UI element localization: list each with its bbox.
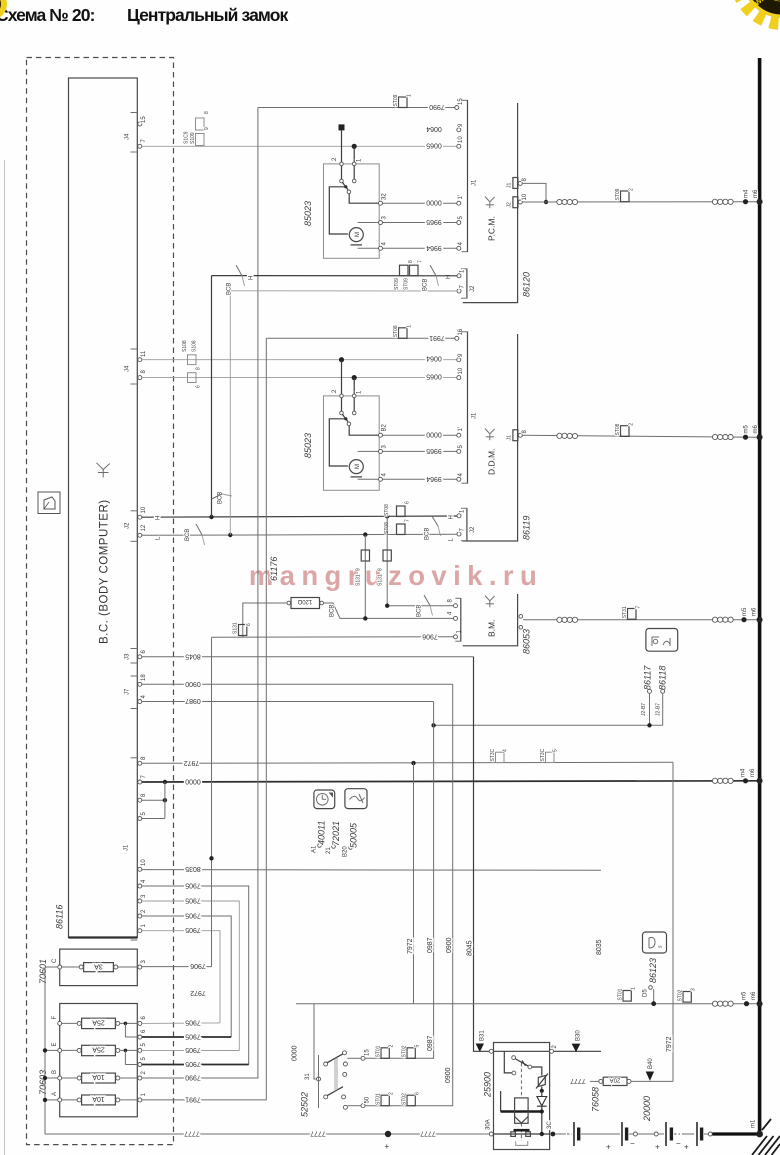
svg-text:52502: 52502 [300, 1092, 310, 1117]
svg-text:3C: 3C [547, 1121, 553, 1129]
svg-text:76058: 76058 [591, 1087, 601, 1112]
svg-text:+: + [655, 1143, 660, 1152]
svg-text:7991: 7991 [185, 1095, 201, 1102]
coil symbol [557, 199, 578, 204]
svg-text:M: M [355, 464, 361, 469]
node m5 [744, 1001, 749, 1006]
svg-text:mangruzovik.ru: mangruzovik.ru [249, 560, 543, 591]
svg-text:0065: 0065 [426, 141, 442, 148]
svg-text:7906: 7906 [422, 632, 438, 639]
svg-text:7: 7 [141, 775, 147, 779]
svg-text:BCB: BCB [218, 492, 224, 504]
wire 0000 ground from J1-7 [142, 781, 758, 782]
svg-text:J1: J1 [472, 412, 478, 419]
pin 15 [361, 1056, 365, 1060]
logo gear top-right [737, 0, 780, 24]
svg-text:J1: J1 [507, 183, 513, 189]
svg-text:4: 4 [458, 242, 464, 246]
switch motor M [329, 419, 363, 477]
node L at riser [228, 533, 232, 537]
svg-text:21: 21 [326, 847, 332, 854]
svg-text:1: 1 [460, 269, 466, 273]
svg-text:7905: 7905 [185, 1046, 201, 1053]
svg-text:ST02: ST02 [678, 989, 684, 1001]
wire 0900 [142, 683, 453, 685]
battery terminal square [339, 124, 345, 130]
relay contact [504, 1051, 542, 1075]
module B.M. symbol K [485, 596, 495, 608]
svg-text:0064: 0064 [426, 125, 442, 132]
connector bracket J1 D.D.M. [462, 332, 478, 484]
wire 7972 [142, 762, 673, 763]
svg-text:B31: B31 [480, 1030, 486, 1041]
relay pin 30A [489, 1132, 493, 1136]
svg-text:3: 3 [382, 216, 388, 220]
svg-text:0000: 0000 [185, 778, 201, 785]
loom mark BCB on H riser [212, 492, 233, 504]
svg-text:5: 5 [553, 749, 559, 752]
svg-text:86123: 86123 [648, 958, 658, 983]
svg-text:25A: 25A [92, 1046, 105, 1053]
relay bottom wire [494, 1133, 550, 1135]
fuse 20A 76058 [570, 1076, 673, 1085]
svg-text:ST01: ST01 [618, 988, 624, 1000]
svg-text:1': 1' [458, 427, 464, 431]
svg-text:J1: J1 [472, 179, 478, 186]
wire 0000 to pin 1 [383, 434, 459, 436]
wire 7991 riser to D.D.M. [142, 338, 266, 1100]
connector ST3C 4 on wire 7972 [490, 748, 509, 762]
svg-text:ST09: ST09 [404, 278, 410, 290]
svg-text:J2: J2 [507, 202, 513, 208]
wire L CAN to modules [142, 534, 458, 535]
svg-text:J7: J7 [125, 688, 131, 695]
connector ST01 2 on wire 0987 [376, 1045, 395, 1059]
relay bottom wire squares [511, 1132, 516, 1137]
connector ST09 1 on wire 7990 [393, 94, 413, 108]
svg-text:9965: 9965 [426, 218, 442, 225]
ground jumper pins 8 5 [142, 780, 167, 819]
wire 9965 pin 3 to 5 [358, 222, 381, 224]
svg-text:10: 10 [458, 367, 464, 374]
svg-text:120Ω: 120Ω [297, 598, 312, 604]
svg-text:6: 6 [196, 385, 202, 388]
svg-text:2: 2 [389, 1045, 395, 1048]
svg-text:7777: 7777 [184, 1130, 200, 1137]
coil symbol [712, 434, 733, 439]
pin 10 D.D.M. [457, 376, 461, 380]
fuse 25A (E) [61, 1045, 137, 1064]
svg-text:8035: 8035 [596, 939, 603, 955]
svg-text:30A: 30A [486, 1119, 492, 1130]
coil symbol [712, 199, 733, 204]
svg-text:1: 1 [357, 390, 363, 394]
svg-text:S131: S131 [378, 574, 384, 586]
connector J7 [125, 674, 148, 709]
node L wire at resistor net [363, 616, 367, 620]
svg-text:Центральный замок: Центральный замок [127, 5, 289, 25]
wire 0064 to D.D.M. [142, 359, 459, 361]
lamp 86123 [643, 932, 667, 953]
node bus m6 [757, 434, 763, 440]
svg-text:10: 10 [522, 193, 528, 200]
svg-text:85023: 85023 [303, 433, 313, 458]
svg-text:L: L [156, 536, 162, 540]
svg-text:8: 8 [522, 178, 528, 182]
module outline 86119 [463, 334, 518, 541]
svg-text:10A: 10A [92, 1095, 105, 1102]
module D.D.M. symbol K [485, 429, 495, 441]
wire 8045 [142, 656, 474, 658]
svg-text:3: 3 [382, 445, 388, 449]
pin 50 [361, 1104, 365, 1108]
svg-text:BCB: BCB [425, 528, 431, 540]
svg-text:D5: D5 [643, 989, 649, 997]
wire 7905 J1-3 [142, 901, 239, 1051]
connector pin J1-8 D.D.M. [507, 430, 529, 441]
svg-text:ST31: ST31 [622, 606, 628, 618]
connector ST01 2 on wire 0900 [376, 1092, 395, 1106]
page scan edge line [4, 160, 6, 1155]
loom mark BCB near P.C.M. J2 [423, 265, 439, 291]
fuse 25A (F) [61, 1018, 137, 1037]
svg-text:3: 3 [141, 960, 147, 964]
svg-text:H: H [249, 276, 255, 280]
svg-text:m6: m6 [752, 607, 758, 616]
svg-text:ST02: ST02 [402, 1045, 408, 1057]
svg-text:2: 2 [141, 909, 147, 913]
relay pin 30 [551, 1132, 556, 1137]
svg-text:7990: 7990 [429, 103, 445, 110]
node bus m6 [757, 199, 763, 205]
svg-text:L: L [449, 538, 455, 542]
resistor 120 ohm [287, 598, 324, 609]
svg-text:50: 50 [365, 1096, 371, 1103]
node on 7906 riser [209, 856, 213, 860]
riser 7906 to B.M. [211, 637, 213, 966]
wire resistor to splice S131-6 [243, 603, 287, 637]
relay pin B31 [489, 1049, 493, 1053]
svg-text:J2-B7: J2-B7 [641, 703, 647, 716]
riser 7972 to fuse 20A [672, 762, 674, 1081]
wire 7906 from fuse 3A [142, 966, 212, 968]
terminal B30 [554, 1050, 601, 1052]
svg-text:5: 5 [458, 216, 464, 220]
svg-text:6: 6 [415, 1092, 421, 1095]
svg-text:B40: B40 [648, 1058, 654, 1069]
svg-text:B.M.: B.M. [487, 620, 497, 637]
wire H riser to B.M. pin 8 [387, 605, 455, 607]
svg-text:10: 10 [141, 859, 147, 866]
svg-text:J2-B7: J2-B7 [656, 703, 662, 716]
svg-text:7905: 7905 [185, 1033, 201, 1040]
connector J1 [124, 756, 148, 940]
switch pin B2 [379, 433, 383, 437]
relay diode [537, 1091, 547, 1134]
node bus m6 [757, 617, 763, 623]
svg-text:7905: 7905 [185, 926, 201, 933]
svg-text:61176: 61176 [269, 557, 279, 581]
svg-text:15: 15 [365, 1049, 371, 1056]
svg-text:B2: B2 [382, 423, 388, 431]
svg-text:M: M [355, 232, 361, 237]
svg-text:9: 9 [458, 123, 464, 127]
svg-text:86053: 86053 [522, 629, 532, 654]
switch contacts [340, 162, 381, 203]
svg-text:32: 32 [382, 193, 388, 200]
svg-text:8045: 8045 [185, 652, 201, 659]
relay capacitor [514, 1129, 530, 1132]
svg-text:7905: 7905 [185, 1060, 201, 1067]
svg-text:5: 5 [141, 812, 147, 816]
door switch 86117 86118 icon [646, 629, 678, 652]
svg-text:4: 4 [141, 879, 147, 883]
coil symbol [557, 617, 578, 622]
svg-text:6: 6 [246, 623, 252, 626]
svg-text:2: 2 [389, 1092, 395, 1095]
svg-text:H: H [449, 515, 455, 519]
svg-text:7905: 7905 [185, 882, 201, 889]
svg-text:ST3C: ST3C [490, 748, 496, 761]
door switch pins J2-B7 [641, 689, 665, 725]
connector ST02 5 on wire 0987 [402, 1045, 421, 1059]
svg-text:1: 1 [457, 630, 463, 634]
svg-text:40011: 40011 [317, 821, 327, 845]
svg-text:4: 4 [382, 242, 388, 246]
node bus ground [757, 778, 763, 784]
svg-text:Схема № 20:: Схема № 20: [0, 5, 95, 25]
connector J2 [125, 506, 148, 541]
wire 9965 pin 3 to 5 [358, 450, 381, 452]
node m4 [743, 199, 748, 204]
coil symbol [712, 1001, 733, 1006]
svg-text:+: + [606, 1143, 611, 1152]
svg-text:7: 7 [418, 260, 424, 263]
svg-text:A1: A1 [312, 845, 318, 853]
connector ST3C 5 on wire 7972 [540, 748, 559, 762]
svg-text:2: 2 [552, 1045, 558, 1049]
svg-text:6: 6 [141, 1016, 147, 1020]
wire 7905 to fuse F-6 [142, 1022, 220, 1025]
svg-text:+: + [684, 1143, 689, 1152]
svg-text:B30: B30 [576, 1030, 582, 1041]
svg-text:4: 4 [382, 473, 388, 477]
switch contacts [340, 394, 381, 435]
fuse box 70603 [60, 1004, 138, 1117]
svg-text:86120: 86120 [522, 272, 532, 297]
svg-text:9965: 9965 [426, 447, 442, 454]
svg-text:86119: 86119 [522, 516, 532, 540]
svg-text:15: 15 [141, 116, 147, 123]
svg-text:H: H [156, 516, 162, 520]
svg-text:S131: S131 [356, 574, 362, 586]
wire 7905 to fuse E-5 [142, 1049, 239, 1051]
svg-text:m1: m1 [751, 1119, 757, 1128]
B.M. pins 8 4 1 [448, 599, 463, 639]
coil symbol on ground wire [712, 778, 733, 783]
svg-text:0900: 0900 [445, 1067, 452, 1083]
module P.C.M. symbol K [485, 197, 495, 209]
splice S131 8 [378, 550, 392, 586]
svg-text:8: 8 [141, 756, 147, 760]
svg-text:m6: m6 [753, 425, 759, 434]
svg-text:ST08: ST08 [384, 504, 390, 516]
wire 0065 to D.D.M. [142, 377, 459, 379]
svg-text:7905: 7905 [185, 912, 201, 919]
svg-text:20000: 20000 [642, 1096, 652, 1122]
svg-text:0065: 0065 [426, 373, 442, 380]
svg-text:3: 3 [141, 894, 147, 898]
svg-text:D.D.M.: D.D.M. [487, 449, 497, 475]
loom mark BCB near D.D.M. J2 [425, 516, 441, 540]
timer 40011 icon [314, 790, 335, 809]
relay coil [501, 1063, 542, 1145]
svg-text:BCB: BCB [227, 283, 233, 295]
node 0064 tap [339, 357, 344, 362]
terminal B40 [646, 1072, 654, 1081]
B.C. box bottom edge [69, 936, 138, 938]
svg-text:ST08: ST08 [393, 325, 399, 337]
svg-text:6: 6 [141, 650, 147, 654]
riser H to S131 [386, 516, 388, 605]
svg-text:8: 8 [196, 367, 202, 370]
connector bracket J2 P.C.M. [461, 269, 476, 299]
svg-text:9964: 9964 [426, 244, 442, 251]
svg-text:7905: 7905 [185, 1019, 201, 1026]
node ground m4 [743, 778, 748, 783]
svg-text:8: 8 [522, 430, 528, 434]
connector ST09 ST09 pair on H wire [394, 260, 424, 290]
riser 0900 [363, 684, 453, 1105]
wire 7905 J1-2 [142, 916, 231, 1037]
svg-text:J1: J1 [507, 435, 513, 441]
svg-text:3A: 3A [94, 962, 103, 969]
svg-text:1: 1 [407, 94, 413, 97]
svg-text:8: 8 [141, 370, 147, 374]
svg-text:J2: J2 [125, 522, 131, 529]
svg-text:7: 7 [460, 528, 466, 532]
pin 7 L D.D.M. [457, 532, 461, 536]
svg-text:1: 1 [141, 1093, 147, 1097]
wire 7991 top run [266, 337, 457, 339]
wire 7905 to fuse F-6b [142, 1036, 231, 1038]
svg-text:1: 1 [141, 924, 147, 928]
relay top wire to pin 2 [494, 1050, 550, 1052]
svg-text:5: 5 [141, 1043, 147, 1047]
connector bracket J1 P.C.M. [462, 100, 478, 252]
svg-text:J4: J4 [125, 133, 131, 140]
riser 8045 to relay [474, 657, 492, 1052]
svg-text:0987: 0987 [427, 1035, 434, 1051]
node battery positive [385, 1131, 391, 1137]
connector J3 [125, 649, 148, 664]
svg-text:0987: 0987 [427, 937, 434, 953]
B.M. output pins [519, 615, 523, 619]
svg-text:1: 1 [357, 158, 363, 162]
pins A1 21 B20 [312, 838, 353, 857]
svg-text:+: + [385, 1142, 390, 1151]
riser 7972 [413, 763, 415, 1004]
connector ST01 1 [618, 987, 637, 1001]
svg-text:0900: 0900 [185, 680, 201, 687]
svg-text:8: 8 [141, 793, 147, 797]
wire 8035 [142, 869, 601, 872]
svg-text:BCB: BCB [185, 529, 191, 541]
wire ground m5 m6 to bus [522, 435, 757, 437]
svg-text:2: 2 [141, 1071, 147, 1075]
wire 0987 [142, 701, 434, 703]
svg-text:9: 9 [204, 127, 210, 130]
pin 1 H D.D.M. [457, 514, 461, 518]
svg-text:4: 4 [448, 611, 454, 615]
svg-text:2: 2 [332, 389, 338, 393]
wire H to P.C.M. [212, 275, 458, 277]
svg-text:7: 7 [460, 285, 466, 289]
riser L to S131 [364, 535, 366, 618]
connector ST08 ST08 pair on H L wires [384, 501, 411, 535]
svg-text:ST09: ST09 [393, 94, 399, 106]
wire 9964 pin 4 to 4 [358, 478, 381, 480]
ground wire m5 m6 lower [296, 1003, 758, 1005]
splice S131 9 [356, 550, 370, 586]
svg-text:4: 4 [141, 695, 147, 699]
node 0065 tap [352, 144, 357, 149]
pin 1 H [457, 274, 461, 278]
svg-text:11: 11 [141, 350, 147, 357]
svg-text:31: 31 [305, 1073, 311, 1080]
svg-text:6: 6 [405, 501, 411, 504]
node 7972 riser [411, 761, 415, 765]
svg-text:m4: m4 [741, 768, 747, 777]
node H at riser [209, 515, 213, 519]
svg-text:5: 5 [415, 1045, 421, 1048]
ground hatching bottom-right corner [752, 1119, 780, 1155]
wire 7990 top run [258, 107, 457, 109]
node L at S131 riser [363, 532, 367, 536]
svg-text:ST09: ST09 [615, 188, 621, 200]
connector pin J2-10 [507, 193, 529, 208]
svg-text:7906: 7906 [190, 962, 206, 969]
wire door switches to 0987 [434, 724, 663, 726]
svg-text:BCB: BCB [423, 279, 429, 291]
svg-text:A: A [52, 1092, 58, 1096]
wire 0065 to P.C.M. [142, 145, 457, 147]
connector ST02 3 [678, 988, 697, 1002]
svg-text:85023: 85023 [303, 201, 313, 226]
svg-text:J2: J2 [470, 285, 476, 292]
wire 7905 J1-1 [142, 931, 220, 1023]
svg-text:7777: 7777 [420, 1130, 436, 1137]
wire m1 to ground bus [712, 1132, 758, 1135]
loom mark BCB [417, 595, 433, 617]
svg-text:7972: 7972 [190, 989, 206, 996]
svg-text:E: E [52, 1042, 58, 1046]
coil symbol [712, 617, 733, 622]
riser 0000 to switch 52502 [314, 1004, 316, 1079]
wire 0000 to pin 1 [383, 202, 459, 204]
node H at S131 riser [385, 514, 389, 518]
switch 85023 box [324, 164, 380, 258]
connector ST08 2 [615, 423, 635, 437]
svg-text:1: 1 [631, 987, 637, 990]
svg-text:m6: m6 [750, 768, 756, 777]
terminal B31 [476, 1044, 484, 1053]
svg-text:8: 8 [448, 599, 454, 603]
relay 25900 box [494, 1043, 550, 1150]
wire 9964 pin 4 to 4 [358, 247, 381, 249]
svg-text:7991: 7991 [429, 334, 445, 341]
connector ST02 6 on wire 0900 [402, 1092, 421, 1106]
